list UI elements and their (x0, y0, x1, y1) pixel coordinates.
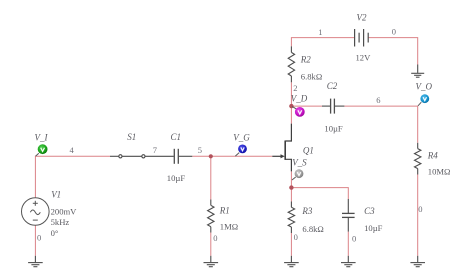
svg-text:6.8kΩ: 6.8kΩ (301, 72, 322, 82)
resistor R2 (288, 46, 294, 82)
wire: C3 bottom to ground (347, 232, 349, 256)
wire: node V_D down to Q1 drain (290, 106, 292, 124)
svg-text:V_O: V_O (416, 81, 433, 91)
resistor R4 (415, 143, 421, 175)
svg-text:10µF: 10µF (167, 173, 186, 183)
svg-text:2: 2 (293, 83, 297, 93)
probe V_G (235, 145, 247, 157)
svg-text:7: 7 (153, 145, 157, 155)
svg-text:R4: R4 (427, 151, 438, 161)
svg-text:V2: V2 (357, 12, 367, 22)
wire: R4 bottom to ground (417, 175, 419, 256)
wire: Q1 source down to node V_S junction (290, 171, 292, 187)
svg-text:0: 0 (294, 232, 298, 242)
AC source V1 (22, 198, 50, 226)
svg-text:0: 0 (37, 232, 41, 242)
probe V_S (292, 169, 303, 180)
capacitor C3 (342, 199, 355, 232)
svg-text:R2: R2 (300, 54, 311, 64)
svg-text:0: 0 (352, 234, 356, 244)
svg-text:5: 5 (198, 145, 202, 155)
svg-text:V_S: V_S (292, 157, 307, 167)
ground (top right, battery return) (411, 65, 424, 78)
ground (below R1) (204, 256, 219, 267)
svg-text:C1: C1 (171, 132, 182, 142)
wire: C1 right through node 5 to Q1 gate (192, 155, 272, 157)
junction node V_D (289, 104, 293, 108)
svg-text:10µF: 10µF (324, 124, 343, 134)
ground (below C3) (341, 256, 356, 267)
svg-text:12V: 12V (356, 53, 372, 63)
resistor R1 (208, 200, 214, 233)
ground (below R4) (410, 256, 425, 267)
svg-text:0: 0 (213, 233, 217, 243)
ground (below V1) (28, 256, 43, 267)
svg-text:R3: R3 (301, 206, 312, 216)
battery V2 (355, 29, 369, 47)
svg-text:V_D: V_D (291, 94, 308, 104)
ground (below R3) (284, 256, 299, 267)
wire: node V_D up to R2 bottom (290, 82, 292, 106)
probe V_D (292, 106, 304, 116)
svg-text:4: 4 (70, 145, 75, 155)
svg-text:S1: S1 (127, 132, 136, 142)
junction node V_S (289, 185, 293, 189)
wire: V_S junction down to R3 (290, 188, 292, 202)
svg-text:1: 1 (318, 27, 322, 37)
svg-text:1MΩ: 1MΩ (220, 221, 238, 231)
svg-text:200mV: 200mV (51, 207, 78, 217)
svg-text:V1: V1 (51, 189, 61, 199)
svg-text:C2: C2 (327, 81, 338, 91)
wire: C2 right through node 6 to V_O corner and down to R4 (344, 106, 417, 143)
switch S1 (110, 155, 174, 158)
wire: node 5 down to R1 (210, 156, 212, 199)
svg-text:C3: C3 (364, 206, 375, 216)
svg-text:0: 0 (392, 27, 396, 37)
capacitor C1 (174, 149, 192, 164)
wire: R1 bottom to ground (210, 233, 212, 256)
svg-text:Q1: Q1 (303, 145, 314, 155)
wire: V1 bottom to ground (34, 225, 36, 255)
svg-text:10µF: 10µF (364, 223, 383, 233)
resistor R3 (288, 202, 294, 234)
svg-text:V_I: V_I (35, 132, 49, 142)
wire: V1 top up and right to switch S1 (net 4) (35, 156, 110, 197)
svg-text:6.8kΩ: 6.8kΩ (302, 224, 323, 234)
wire: V_S junction right and down to C3 (291, 188, 348, 199)
svg-text:0: 0 (418, 204, 422, 214)
probe V_O (418, 94, 429, 106)
wire: battery V2 right to top-right ground (net 0) (368, 38, 418, 65)
wire: node V_D right to C2 left (291, 105, 322, 107)
probe V_I (36, 144, 48, 156)
junction node 5 (209, 154, 213, 158)
svg-text:V_G: V_G (233, 132, 250, 142)
svg-text:6: 6 (376, 95, 380, 105)
capacitor C2 (322, 99, 344, 114)
svg-text:5kHz: 5kHz (51, 217, 70, 227)
svg-text:0°: 0° (51, 228, 59, 238)
svg-text:10MΩ: 10MΩ (428, 166, 451, 176)
transistor Q1 (n-JFET) (272, 124, 291, 172)
svg-text:R1: R1 (219, 205, 230, 215)
wire: R3 bottom to ground (290, 233, 292, 256)
wire: R2 top to corner, across to battery V2 (net 1) (291, 38, 354, 47)
